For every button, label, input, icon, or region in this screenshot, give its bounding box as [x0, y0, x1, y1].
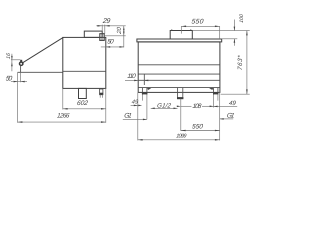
dimension 110 [125, 79, 138, 81]
svg-text:20: 20 [117, 26, 123, 35]
dimension 100 [233, 20, 235, 31]
svg-text:100: 100 [239, 14, 245, 24]
svg-text:1266: 1266 [57, 113, 71, 120]
svg-text:1099: 1099 [176, 133, 187, 139]
dimension 602 [62, 88, 64, 109]
chimney top extension [192, 30, 249, 32]
left water fitting (front view) [141, 88, 143, 95]
svg-text:16: 16 [6, 53, 12, 60]
callout G1 (right) [220, 118, 234, 120]
draft regulator fitting [20, 62, 23, 65]
svg-text:550: 550 [191, 123, 203, 130]
svg-text:G1/2: G1/2 [157, 103, 172, 110]
flue flange [100, 34, 104, 41]
door edge line [143, 75, 145, 86]
dimension 108 [181, 105, 192, 107]
body seam lines [138, 64, 220, 66]
rear fitting (side view) [100, 89, 103, 95]
chimney centerline [180, 26, 182, 33]
body bottom extension [221, 93, 250, 95]
dimension 1099 [138, 139, 220, 141]
body left extension [137, 92, 139, 140]
dimension 763* [246, 31, 248, 95]
svg-text:110: 110 [127, 73, 137, 80]
right water fitting (front view) [213, 88, 215, 95]
body right extension [219, 92, 221, 140]
dimension 50 (flue offset) [123, 36, 125, 48]
dimension 49 (left) [131, 104, 138, 106]
hopper slope line [22, 37, 63, 63]
dimension 50 (front offset) [20, 72, 22, 82]
svg-text:550: 550 [191, 18, 204, 25]
callout G1 (left) [123, 118, 147, 120]
dimension 49 (right) [214, 105, 238, 107]
chimney axis extension (bottom) [180, 99, 182, 131]
chimney flange ticks [171, 29, 173, 30]
svg-text:50: 50 [5, 76, 13, 83]
dimension 20 [123, 26, 125, 36]
front handle line [18, 71, 63, 73]
dimension 550 (top) [181, 25, 219, 27]
roof plate [137, 39, 222, 42]
boiler body (side view) [63, 37, 106, 88]
roof extension [222, 38, 238, 40]
left leg (side view) [79, 88, 87, 98]
middle drain stub G1/2 [177, 87, 179, 98]
dimension 16 [11, 54, 13, 72]
svg-text:G1: G1 [226, 113, 235, 120]
dimension 29 [96, 25, 125, 27]
svg-text:108: 108 [192, 103, 202, 110]
flue pipe (side view) [84, 31, 102, 37]
dimension 1266 [17, 72, 19, 122]
svg-text:50: 50 [107, 38, 115, 45]
chimney [170, 31, 192, 40]
svg-text:763*: 763* [237, 54, 244, 70]
callout G1/2 [151, 107, 178, 109]
svg-text:G1: G1 [124, 113, 133, 120]
dimension 550 (bottom) [181, 130, 220, 132]
svg-text:602: 602 [76, 100, 88, 107]
boiler body (front view) [138, 42, 220, 93]
G1 leader arrow left [147, 88, 151, 90]
G1 leader arrow right [209, 88, 213, 90]
body divider line [63, 70, 106, 72]
svg-text:29: 29 [101, 18, 110, 25]
regulator stem [20, 66, 22, 73]
